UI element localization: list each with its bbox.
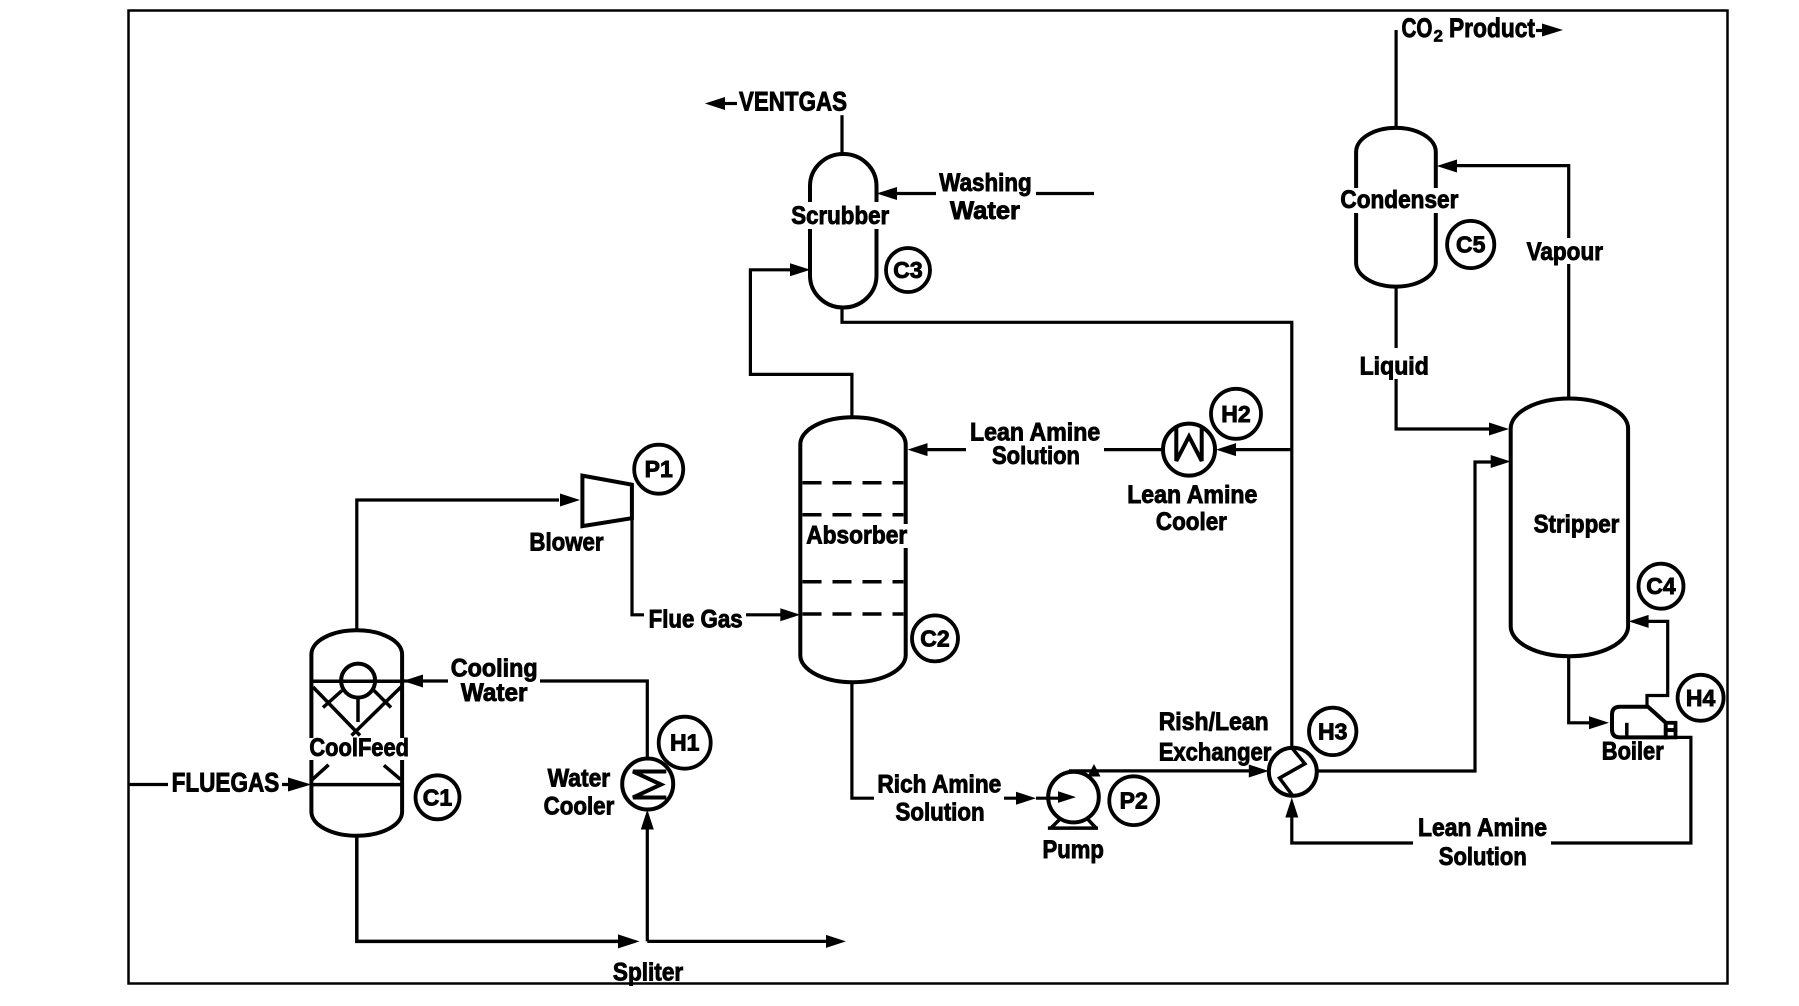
- svg-text:H3: H3: [1318, 718, 1347, 744]
- node H3: [1309, 708, 1356, 755]
- svg-text:Cooler: Cooler: [1156, 508, 1227, 536]
- arrow up into H1: [641, 810, 654, 830]
- svg-text:Blower: Blower: [529, 528, 603, 556]
- svg-text:Scrubber: Scrubber: [791, 202, 889, 230]
- arrow gas into scrubber: [790, 263, 810, 276]
- CoolFeed spray V: [313, 687, 401, 736]
- absorber packing dashed lines: [803, 481, 904, 485]
- node H1: [659, 717, 711, 769]
- svg-text:Product: Product: [1449, 13, 1535, 43]
- svg-text:Liquid: Liquid: [1360, 353, 1429, 381]
- node H4: [1678, 675, 1724, 721]
- wire splitter up to H1: [646, 829, 649, 941]
- arrow vapour into condenser: [1437, 160, 1457, 173]
- vessel Condenser C5: [1356, 128, 1436, 287]
- svg-text:Rich Amine: Rich Amine: [877, 771, 1001, 799]
- svg-text:Washing: Washing: [939, 169, 1031, 197]
- svg-text:Absorber: Absorber: [806, 522, 907, 550]
- blower P1 body: [582, 476, 632, 526]
- wire absorber bottom to pump: [852, 682, 1016, 798]
- svg-text:Solution: Solution: [1439, 843, 1527, 871]
- svg-text:Lean Amine: Lean Amine: [1127, 481, 1257, 509]
- wire CO2 product line: [1394, 30, 1397, 128]
- arrow splitter outlet: [826, 935, 846, 948]
- svg-text:C1: C1: [423, 784, 453, 810]
- arrow inside pump: [1058, 791, 1076, 803]
- svg-text:P1: P1: [645, 456, 673, 482]
- boiler H4 body: [1612, 707, 1666, 738]
- arrow flue gas into absorber: [780, 608, 800, 621]
- node C2: [912, 615, 958, 661]
- svg-text:Pump: Pump: [1043, 836, 1104, 864]
- wire scrubber vent: [840, 115, 843, 155]
- node P1: [634, 445, 683, 494]
- wire pump outlet to H3: [1069, 769, 1249, 772]
- vessel Stripper C4: [1511, 399, 1628, 657]
- svg-text:Water: Water: [950, 197, 1020, 225]
- svg-text:Lean Amine: Lean Amine: [1418, 814, 1547, 842]
- arrow at splitter junction: [618, 934, 640, 948]
- wire into pump: [1036, 797, 1060, 800]
- arrow CO2 product: [1542, 24, 1563, 37]
- svg-text:FLUEGAS: FLUEGAS: [172, 768, 280, 798]
- wire cooling water to CoolFeed: [404, 681, 647, 759]
- pump P2 body: [1048, 772, 1099, 823]
- arrow rich amine before pump: [1016, 792, 1036, 805]
- wire washing water: [896, 192, 1094, 195]
- wire VENTGAS arrow tail: [723, 102, 737, 105]
- CoolFeed lower tray diagonals: [312, 765, 400, 780]
- vessel Scrubber C3: [810, 154, 877, 308]
- svg-text:CoolFeed: CoolFeed: [309, 734, 409, 762]
- svg-text:H4: H4: [1686, 685, 1716, 711]
- wire stripper bottom to boiler: [1569, 656, 1590, 723]
- svg-text:Water: Water: [461, 679, 528, 707]
- arrow washing water into scrubber: [877, 187, 898, 200]
- heat exchanger H1 (water cooler) circle: [622, 759, 673, 810]
- svg-text:C4: C4: [1646, 573, 1676, 599]
- svg-text:C3: C3: [893, 257, 922, 283]
- svg-text:C2: C2: [920, 625, 949, 651]
- arrow rich amine into stripper: [1491, 455, 1511, 468]
- node C4: [1639, 564, 1684, 609]
- arrow liquid into stripper: [1489, 423, 1509, 436]
- pump P2 base: [1048, 819, 1098, 829]
- wire boiler vapor return to stripper: [1647, 621, 1668, 706]
- wire boiler to lean amine solution line to H3 bottom: [1292, 737, 1691, 843]
- svg-text:Water: Water: [548, 764, 611, 792]
- svg-text:Boiler: Boiler: [1602, 738, 1664, 766]
- wire H2 to absorber (lean amine solution): [927, 448, 1163, 451]
- wire CoolFeed top to blower: [357, 500, 559, 631]
- arrow into H2: [1216, 443, 1236, 456]
- node C3: [886, 248, 930, 292]
- boiler flange squares: [1666, 723, 1676, 730]
- vessel CoolFeed C1: [311, 630, 402, 836]
- wire stripper top vapour to condenser: [1456, 166, 1569, 399]
- svg-text:H1: H1: [670, 730, 700, 756]
- svg-text:Exchanger: Exchanger: [1159, 739, 1272, 767]
- arrow small up at pump outlet: [1088, 764, 1101, 777]
- wire CoolFeed bottom to splitter: [357, 836, 619, 941]
- wire splitter to right arrow: [647, 940, 827, 943]
- wire junction to H2: [1236, 448, 1292, 451]
- svg-text:C5: C5: [1456, 232, 1486, 258]
- H2 coil: [1176, 427, 1201, 462]
- wire absorber top to scrubber: [750, 270, 852, 418]
- svg-text:Flue Gas: Flue Gas: [649, 606, 743, 634]
- svg-text:Rish/Lean: Rish/Lean: [1159, 708, 1269, 736]
- heat exchanger H2 (lean amine cooler) circle: [1163, 424, 1215, 476]
- CoolFeed spray ticks: [323, 691, 391, 723]
- wire FLUEGAS inlet: [129, 783, 290, 786]
- wire scrubber bottom to H3 top: [842, 308, 1292, 748]
- svg-text:Condenser: Condenser: [1340, 186, 1458, 214]
- svg-text:VENTGAS: VENTGAS: [739, 86, 847, 116]
- arrow into H3 left: [1249, 765, 1269, 778]
- white label backgrounds: [788, 202, 892, 229]
- wire H3 right up to stripper (rich feed): [1317, 462, 1491, 771]
- wire blower outlet / flue gas: [632, 518, 781, 615]
- arrow cooling water into CoolFeed: [403, 675, 423, 688]
- boiler weir: [1625, 723, 1629, 738]
- svg-text:P2: P2: [1120, 788, 1148, 814]
- CoolFeed internals: distributor circle: [341, 664, 375, 698]
- svg-text:Vapour: Vapour: [1527, 238, 1604, 266]
- svg-text:Solution: Solution: [992, 442, 1080, 470]
- node H2: [1211, 389, 1261, 439]
- vessel Absorber C2: [800, 417, 905, 682]
- svg-text:Solution: Solution: [896, 798, 985, 826]
- svg-text:2: 2: [1434, 27, 1443, 46]
- arrow into blower: [560, 494, 580, 507]
- arrow into boiler: [1589, 716, 1609, 729]
- node C1: [416, 775, 460, 819]
- heat exchanger H3 (rich/lean exchanger) circle: [1269, 748, 1317, 796]
- arrow FLUEGAS into CoolFeed: [288, 778, 311, 792]
- CoolFeed lower tray line: [311, 783, 402, 787]
- node C5: [1447, 221, 1494, 268]
- arrow boiler vapor into stripper: [1629, 615, 1649, 628]
- svg-text:CO: CO: [1402, 13, 1433, 43]
- svg-text:Spliter: Spliter: [613, 959, 684, 987]
- arrow lean amine up into H3: [1285, 798, 1298, 818]
- H3 zigzag: [1280, 748, 1305, 796]
- svg-text:Stripper: Stripper: [1534, 511, 1620, 539]
- node P2: [1109, 776, 1158, 825]
- CoolFeed internal header line: [311, 679, 402, 683]
- wire condenser liquid to stripper: [1396, 287, 1490, 429]
- svg-text:Cooler: Cooler: [544, 793, 615, 821]
- arrow VENTGAS: [705, 97, 725, 110]
- H1 coil: [633, 772, 666, 798]
- svg-text:H2: H2: [1221, 401, 1250, 427]
- arrow lean amine into absorber: [908, 443, 928, 456]
